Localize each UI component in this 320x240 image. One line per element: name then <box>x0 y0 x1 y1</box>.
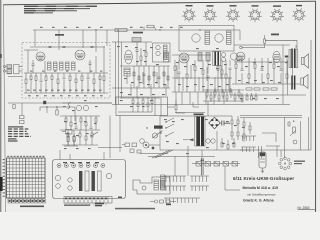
wire socket feeds <box>276 146 278 157</box>
wire RT5 <box>85 116 87 122</box>
resistor RA7 <box>273 64 275 68</box>
wire audio h1 <box>234 44 290 46</box>
resistor RT6 <box>90 126 93 128</box>
transistor T1 <box>76 105 81 110</box>
resistor R11 <box>145 52 147 57</box>
wire RX2 <box>137 97 139 103</box>
wire RT7 <box>95 116 97 118</box>
wire lr links <box>262 132 276 134</box>
resistor RM10 <box>229 67 232 69</box>
bus value labels <box>40 27 183 28</box>
wire B+ bus right <box>239 30 241 40</box>
wire RM7 <box>217 60 219 66</box>
resistor RU4 <box>85 136 87 140</box>
panel labels <box>63 162 67 163</box>
rectifier bridge <box>209 117 221 129</box>
lower right vert v3 <box>308 117 310 150</box>
power transformer frame <box>195 117 205 147</box>
coil A2 <box>215 34 223 42</box>
wire FM internal mid <box>24 72 108 74</box>
resistor RC1 <box>133 72 135 76</box>
wire RC7 <box>163 66 165 78</box>
wire panel feeds <box>59 150 61 160</box>
extra central sticks <box>127 72 166 98</box>
svg-text:Melodia M 418 u. 419: Melodia M 418 u. 419 <box>243 186 279 190</box>
dial assembly parts <box>150 200 176 203</box>
dark label tone <box>154 126 163 129</box>
tube base view EL84 <box>270 9 284 22</box>
resistor RF14 <box>99 76 101 80</box>
wire RF14 leads <box>99 73 101 76</box>
bracket hatched blocks <box>154 180 159 190</box>
wire audio h3 <box>232 83 300 85</box>
resistor RM1 <box>174 66 176 70</box>
wire RC3 <box>143 66 145 78</box>
resistor RM6 <box>207 75 210 77</box>
resistor RF8 <box>63 76 66 78</box>
compressor module box <box>116 97 168 116</box>
resistor RT3 <box>75 126 78 128</box>
wire RT6 <box>90 116 92 126</box>
ground magic eye <box>261 170 264 172</box>
resistor RF4 <box>40 79 43 81</box>
panel left knobs <box>55 175 60 180</box>
panel mid circles <box>68 178 72 182</box>
wire central h3 <box>112 87 170 89</box>
svg-text:Nr. 2563: Nr. 2563 <box>298 206 310 210</box>
scan edge blob <box>0 177 3 191</box>
wire RF6 leads <box>51 73 53 76</box>
grid footer boxes <box>8 199 45 203</box>
FM coil L5 <box>72 62 76 70</box>
terminal strip marks <box>65 198 107 200</box>
transistor T2 <box>83 105 88 110</box>
capacitor CB1 dark <box>43 101 46 104</box>
wire RF10 leads <box>75 73 77 79</box>
wire comp to knobs <box>98 147 122 149</box>
chassis rear panel outline <box>53 160 126 199</box>
magic eye screen dark <box>260 153 265 156</box>
wire mid h2 <box>172 77 232 79</box>
coil A1 <box>192 34 200 42</box>
wire RM8 <box>221 60 223 70</box>
output choke dark core <box>291 76 293 90</box>
svg-text:Graetz K. G. Altena: Graetz K. G. Altena <box>243 199 274 203</box>
wire RT3 <box>75 116 77 126</box>
wire mains arrow <box>183 139 189 141</box>
resistor RF3 <box>35 76 37 81</box>
wire RA5 <box>261 58 263 69</box>
wire RU5 <box>91 130 93 133</box>
labels inside FM box bottom <box>28 95 103 96</box>
resistor RM3 <box>186 74 188 78</box>
resistor RF9 <box>69 76 71 81</box>
FM coil L4 <box>66 62 70 70</box>
wire arrow pair <box>200 158 202 175</box>
resistor LR1 <box>288 122 290 126</box>
wire RF11 leads <box>81 73 83 76</box>
resistor RT2 <box>70 122 72 126</box>
lower right vert v2 <box>300 121 302 150</box>
resistor RT5 <box>85 122 87 126</box>
tube base view EF89 <box>226 9 240 22</box>
magic eye EM80 <box>259 152 266 168</box>
wire RF9 leads <box>69 73 71 76</box>
resistor RA6 <box>267 74 269 78</box>
wire feeds into FM box <box>34 30 36 46</box>
wire RT2 <box>70 116 72 122</box>
resistor RF2 <box>30 76 32 80</box>
resistor RF10 <box>75 79 77 83</box>
contact comb D <box>241 136 256 152</box>
core A2 <box>227 31 232 45</box>
wire RP3 <box>243 118 245 122</box>
wire RP1 <box>231 116 233 120</box>
wire above switch bank <box>148 156 215 158</box>
wire RM1 <box>174 60 176 66</box>
wire right return <box>240 149 311 151</box>
wire RU1 <box>67 130 69 133</box>
ratio detector transformer dark <box>214 52 216 66</box>
wire B+ down right <box>310 40 312 150</box>
wire det to psu <box>175 112 205 114</box>
dark label ot <box>285 56 288 58</box>
doc number underline <box>298 209 316 211</box>
wire RC8 <box>167 66 169 78</box>
wire RF8 leads <box>63 73 65 76</box>
wire to magic eye <box>258 146 260 158</box>
resistor RA4 <box>254 64 256 68</box>
coil can L10 <box>124 68 130 76</box>
value labels psu <box>164 119 245 154</box>
wire central h1 <box>112 41 152 43</box>
wire corner left <box>21 103 23 115</box>
resistor RP5 <box>237 132 239 136</box>
wire RP5 <box>237 128 239 132</box>
wire RF13 leads <box>93 73 95 79</box>
wire RC6 <box>158 66 160 78</box>
left lower parts <box>20 116 25 124</box>
tube V3 EF89 <box>179 53 189 63</box>
resistor RP4 <box>231 132 233 136</box>
wire magic eye pins <box>262 168 264 171</box>
wire RF4 leads <box>40 73 42 79</box>
grid caption <box>20 206 44 208</box>
wire det drop <box>207 101 209 116</box>
node tone dots <box>146 127 147 128</box>
hole H5 <box>86 164 90 168</box>
switch comb B <box>190 176 209 191</box>
header notes text bold words <box>24 6 97 14</box>
wire RM4 <box>194 60 196 66</box>
wire RP7 <box>249 122 251 126</box>
terminal strip tails <box>66 203 106 206</box>
hole H3 <box>72 164 76 168</box>
resistor RC5 <box>153 72 155 76</box>
small mark 24 <box>166 204 171 206</box>
antenna coil primary <box>7 65 12 69</box>
tube base view ECC85 <box>182 9 196 22</box>
resistor R30 <box>175 105 177 110</box>
output transformer dark core <box>291 49 293 69</box>
switch wiring verticals <box>174 156 176 176</box>
hole H1 <box>57 164 61 168</box>
FM tuner shield box <box>22 43 110 99</box>
FM coil L1 <box>48 62 52 70</box>
switch comb C <box>164 198 200 203</box>
node lr junction <box>293 121 294 122</box>
lower right wiring h1 <box>240 115 302 117</box>
diode section EABC80 <box>230 53 237 60</box>
border frame top <box>3 1 316 5</box>
tube V4 EABC80 <box>236 52 245 61</box>
resistor RT7 <box>95 118 97 122</box>
voltage table grid <box>7 158 46 198</box>
wire FM internal top <box>24 49 38 51</box>
value labels mid right <box>176 48 229 87</box>
tape out circuit <box>40 107 75 121</box>
wire RM5 <box>202 60 204 70</box>
node mains dots <box>165 121 166 122</box>
svg-text:6/11 Kreis-UKW-Großsuper: 6/11 Kreis-UKW-Großsuper <box>233 176 294 181</box>
coil pair right <box>221 53 225 57</box>
resistor RA5 <box>261 68 264 70</box>
pot P1 <box>290 127 297 144</box>
wire RM6 <box>207 60 209 74</box>
resistor RA8 <box>280 68 283 70</box>
wire audio h4 <box>232 94 306 96</box>
wire below FM box <box>22 102 112 104</box>
detector ext parts <box>246 93 257 100</box>
resistor RU2 <box>73 136 75 140</box>
wire RF5 leads <box>45 73 47 76</box>
capacitor tuning C1 <box>32 63 35 65</box>
capacitor CF3 <box>91 45 94 47</box>
hole H6 <box>94 164 98 168</box>
resistor RX1 <box>132 100 134 104</box>
antenna coil secondary <box>7 70 12 74</box>
resistor RA2 <box>241 68 244 70</box>
core A1 <box>205 31 210 45</box>
wire central h2 <box>120 65 170 67</box>
resistor RF5 <box>45 76 47 81</box>
lower right wiring h2 <box>240 116 302 118</box>
extra midright sticks <box>177 65 229 91</box>
resistor RP1 <box>231 120 233 124</box>
wire RU3 <box>79 130 81 133</box>
loudspeaker LS2 <box>301 75 308 89</box>
wire RA6 <box>267 58 269 74</box>
switch can left <box>161 175 166 189</box>
value labels audio <box>237 60 288 99</box>
IF can left <box>164 52 169 62</box>
resistor RA3 <box>248 74 250 78</box>
resistor RX5 <box>151 100 153 104</box>
resistor RU1 <box>67 133 69 137</box>
switch S1 curve <box>68 102 71 109</box>
label ECH81 <box>133 32 143 34</box>
ratio det frame <box>213 52 221 66</box>
antenna input terminals <box>3 65 7 72</box>
resistor RM4 <box>194 66 196 70</box>
resistor RX4 <box>147 103 149 107</box>
wire RT4 <box>80 116 82 118</box>
wire psu v1 <box>159 116 161 150</box>
resistor RX3 <box>142 100 144 104</box>
scan edge mark <box>0 54 2 58</box>
psu resistors row2 <box>221 138 235 149</box>
border frame left <box>3 5 5 212</box>
wire psu h2 <box>160 149 250 151</box>
resistor RA1 <box>235 64 237 68</box>
wire RF12 leads <box>87 73 89 76</box>
tube V1b ECC85 <box>75 50 85 60</box>
tube base view ECH81 <box>203 9 217 22</box>
wire FM internal low <box>24 92 108 94</box>
socket caption <box>294 161 305 162</box>
potentiometer tone <box>153 133 158 138</box>
header notes text <box>24 6 97 14</box>
pilot lamp La2 <box>211 139 215 143</box>
wire tone h <box>140 153 168 155</box>
wire central h4 <box>112 104 290 106</box>
antenna coupling box <box>14 65 19 74</box>
coil T2a <box>156 45 160 49</box>
resistor RC7 <box>163 72 165 76</box>
wire RX4 <box>147 97 149 103</box>
switch comb A <box>164 176 186 191</box>
switch compressor <box>91 132 98 136</box>
resistor RF13 <box>93 79 95 84</box>
wire mid verticals2 <box>175 92 177 105</box>
mains arrow <box>189 138 194 141</box>
wire RF1 leads <box>25 73 27 79</box>
terminal circle <box>240 46 243 49</box>
wire RF7 leads <box>57 73 59 79</box>
wire RM2 <box>178 60 180 70</box>
wire RF3 leads <box>35 73 37 76</box>
IF can T1 <box>132 38 141 43</box>
wire long verticals central <box>114 42 116 105</box>
TA jack cluster <box>62 130 78 147</box>
wire RF2 leads <box>30 73 32 76</box>
mounting bracket <box>133 177 170 194</box>
resistor RC4 <box>148 76 150 80</box>
border frame right <box>315 1 317 212</box>
resistor RF11 <box>81 76 83 81</box>
wire RM9 <box>225 60 227 74</box>
resistor RP7 <box>249 126 251 130</box>
wire RP6 <box>243 130 245 134</box>
wire RC2 <box>138 66 140 78</box>
wire comp h1 <box>62 102 112 104</box>
loudspeaker LS1 <box>302 54 309 68</box>
resistor RC3 <box>143 73 146 75</box>
wire RU2 <box>73 130 75 136</box>
switch contacts mains <box>166 118 174 136</box>
resistor RT4 <box>80 118 82 122</box>
wire module to panel v1 <box>109 116 111 159</box>
bottom text line <box>115 208 155 210</box>
resistor RX2 <box>137 103 139 107</box>
filter cap pair <box>222 121 224 126</box>
wire module h <box>118 111 152 113</box>
hole H4 <box>79 164 83 168</box>
resistor RP2 <box>237 120 239 124</box>
grid row labels <box>3 159 6 197</box>
grid heavy lines <box>7 158 46 198</box>
wire psu h1 <box>160 115 232 117</box>
hole H7 <box>101 164 105 168</box>
resistor R-bus1 <box>115 28 127 31</box>
grid footer marks <box>9 200 45 202</box>
tube base view EABC80 <box>248 9 262 22</box>
resistor RF6 <box>51 76 53 80</box>
wire RX1 <box>132 97 134 100</box>
transformer label <box>194 114 204 116</box>
wire central h5 <box>120 97 160 99</box>
wire B+ bus <box>33 29 240 31</box>
capacitor CF2 <box>63 45 66 47</box>
wire comp h4 <box>62 144 98 146</box>
resistor RF12 <box>87 76 90 78</box>
value labels FM box <box>27 71 102 91</box>
resistor R10 <box>140 56 142 61</box>
module inner dividers <box>154 97 156 116</box>
wire module to panel v2 <box>119 116 121 153</box>
wire rect out <box>224 122 230 124</box>
power transformer core dark2 <box>201 117 204 147</box>
tube V1a ECC85 <box>36 52 45 61</box>
resistor RC2 <box>138 76 140 80</box>
wire RA9 <box>286 58 288 74</box>
wire audio h2 <box>234 61 288 63</box>
hole H2 <box>64 164 68 168</box>
lower right vert v1 <box>284 117 286 158</box>
resistor RC8 <box>167 76 169 80</box>
wire comp h2 <box>60 115 100 117</box>
tube V5 EL84 <box>273 51 280 63</box>
wire FM upper <box>30 46 105 48</box>
capacitor C10 <box>136 49 139 51</box>
tube base view EM80 <box>292 8 306 21</box>
label D <box>118 197 122 199</box>
label ECC85 <box>55 34 64 36</box>
wire RC5 <box>153 66 155 78</box>
pilot lamp La1 <box>206 139 210 143</box>
notes text block <box>8 126 31 141</box>
wire RA4 <box>254 58 256 64</box>
wire FM verticals upper <box>27 50 29 73</box>
wire RU4 <box>85 130 87 136</box>
value labels central <box>117 46 166 95</box>
resistor RM7 <box>217 66 219 70</box>
coil cans V3 <box>198 53 202 62</box>
value labels comp <box>63 100 153 149</box>
resistor RU3 <box>79 133 81 137</box>
wire antenna to box <box>19 66 22 68</box>
wire audio-out vert <box>292 68 294 76</box>
node bus junctions <box>95 29 96 30</box>
resistor row audio <box>246 88 252 90</box>
node tape dots <box>56 106 57 107</box>
wire mid h3 <box>172 91 232 93</box>
knob circle small <box>140 139 145 144</box>
wire module out <box>168 106 175 108</box>
FM coil L2 <box>54 62 58 70</box>
resistor RM9 <box>225 74 227 78</box>
power transformer core dark <box>196 117 200 147</box>
